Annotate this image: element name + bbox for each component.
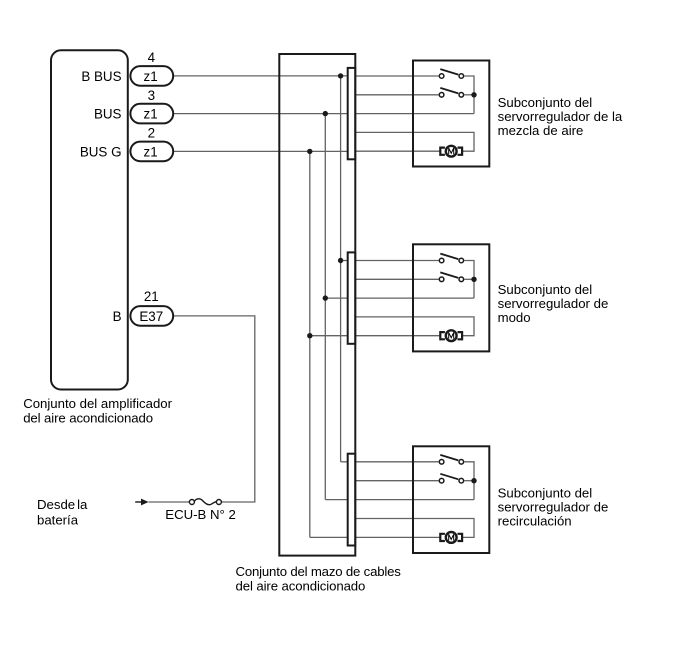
junction switch common in air mix servo	[471, 92, 476, 97]
motor M3 letter M	[449, 534, 454, 540]
wire harness to air mix servo terminal 5 (motor)	[350, 150, 440, 152]
wire harness to recirculation servo terminal 1	[350, 461, 439, 463]
wire BUS G branch to connector 2	[310, 335, 350, 337]
junction BUS G at connector 1	[307, 149, 312, 154]
switch S2b lever	[440, 272, 458, 278]
wire switch common vertical in mode servo	[464, 261, 474, 299]
svg-text:4: 4	[148, 50, 156, 65]
wire harness to air mix servo terminal 1	[350, 75, 439, 77]
switch S1b lever	[440, 88, 458, 94]
wire switch 2 output in mode servo	[464, 278, 474, 280]
wire BUS branch to connector 2	[325, 297, 349, 299]
switch S2a contact circles in mode servo	[439, 258, 444, 263]
junction BUS G at connector 2	[307, 333, 312, 338]
wire harness to recirculation servo terminal 3	[350, 499, 474, 501]
svg-text:3: 3	[148, 88, 155, 103]
wire harness to air mix servo terminal 2	[350, 94, 439, 96]
connector E37 pin 21 (B) oval	[130, 306, 173, 326]
wire BUS pin to harness connector 1	[152, 113, 350, 115]
svg-text:z1: z1	[144, 107, 158, 122]
wire BUS G pin to harness connector 1	[152, 150, 350, 152]
svg-text:Subconjunto del: Subconjunto del	[498, 486, 593, 501]
svg-text:Conjunto del amplificador: Conjunto del amplificador	[23, 396, 172, 411]
switch S3a contact circles in recirculation servo	[439, 460, 444, 465]
switch S2b contact circles in mode servo	[439, 277, 444, 282]
svg-text:z1: z1	[144, 145, 158, 160]
connector z1 pin 2 (BUS G) oval	[130, 142, 173, 162]
harness connector block 3	[348, 454, 356, 546]
svg-text:21: 21	[144, 289, 159, 304]
wire harness to recirculation servo terminal 2	[350, 480, 439, 482]
wire harness to air mix servo terminal 3	[350, 113, 474, 115]
wire harness to mode servo terminal 3	[350, 297, 474, 299]
wire B pin E37 to fuse (right/down/left)	[152, 316, 255, 502]
motor M2 terminal brackets	[440, 332, 445, 339]
connector z1 pin 3 (BUS) oval	[130, 104, 173, 124]
wire BUS branch to connector 3	[325, 499, 349, 501]
svg-text:E37: E37	[139, 309, 163, 324]
junction B BUS at connector 1	[338, 73, 343, 78]
wire switch common vertical in air mix servo	[464, 76, 474, 114]
switch S1a lever	[440, 69, 458, 75]
svg-text:ECU-B N° 2: ECU-B N° 2	[165, 507, 236, 522]
harness connector block 1	[348, 68, 356, 159]
wire B BUS vertical drop inside harness	[340, 76, 342, 462]
switch S1b contact circles in air mix servo	[439, 93, 444, 98]
switch S3a lever	[440, 455, 458, 461]
wire BUS G vertical drop inside harness	[309, 151, 311, 537]
wire harness to recirculation servo terminal 5 (motor)	[350, 536, 440, 538]
svg-text:z1: z1	[144, 69, 158, 84]
motor M2 letter M	[449, 333, 454, 339]
junction switch common in recirculation servo	[471, 478, 476, 483]
svg-text:servorregulador de: servorregulador de	[498, 296, 609, 311]
svg-text:2: 2	[148, 126, 155, 141]
svg-text:del aire acondicionado: del aire acondicionado	[236, 579, 366, 594]
svg-text:batería: batería	[37, 512, 79, 527]
arrow from battery	[135, 501, 141, 503]
wire harness to recirculation servo terminal 4 then down to motor	[350, 519, 474, 538]
A/C wire harness assembly outline	[279, 54, 355, 556]
wire harness to air mix servo terminal 4 then down to motor	[350, 132, 474, 151]
svg-text:Subconjunto del: Subconjunto del	[498, 282, 593, 297]
svg-text:B BUS: B BUS	[81, 69, 121, 84]
wire BUS G branch to connector 3	[310, 536, 350, 538]
switch S1a contact circles in air mix servo	[439, 74, 444, 79]
junction BUS at connector 2	[323, 295, 328, 300]
svg-text:mezcla de aire: mezcla de aire	[498, 123, 584, 138]
motor M1 terminal brackets	[440, 148, 445, 155]
wire switch 2 output in air mix servo	[464, 94, 474, 96]
switch S2a lever	[440, 254, 458, 260]
junction B BUS at connector 2	[338, 258, 343, 263]
wire switch 2 output in recirculation servo	[464, 480, 474, 482]
wire B BUS branch to connector 2	[341, 260, 350, 262]
switch S3b lever	[440, 474, 458, 480]
wire switch common vertical in recirculation servo	[464, 462, 474, 500]
motor M1 letter M	[449, 148, 454, 154]
svg-text:Conjunto del mazo de cables: Conjunto del mazo de cables	[236, 564, 402, 579]
svg-text:Subconjunto del: Subconjunto del	[498, 95, 593, 110]
wire arrow to fuse	[149, 501, 190, 503]
wire BUS vertical drop inside harness	[324, 114, 326, 500]
junction switch common in mode servo	[471, 277, 476, 282]
A/C amplifier assembly outline	[51, 50, 128, 389]
mode servo box outline	[413, 244, 489, 351]
svg-text:B: B	[113, 309, 122, 324]
switch S3b contact circles in recirculation servo	[439, 478, 444, 483]
svg-text:servorregulador de la: servorregulador de la	[498, 109, 623, 124]
recirculation servo box outline	[413, 446, 489, 553]
wire harness to mode servo terminal 1	[350, 260, 439, 262]
connector z1 pin 4 (B BUS) oval	[130, 66, 173, 86]
svg-text:recirculación: recirculación	[498, 514, 572, 529]
svg-text:del aire acondicionado: del aire acondicionado	[23, 411, 153, 426]
svg-text:BUS G: BUS G	[80, 145, 122, 160]
harness connector block 2	[348, 252, 356, 343]
svg-text:BUS: BUS	[94, 107, 122, 122]
motor M1 circle	[446, 146, 457, 157]
motor M3 terminal brackets	[440, 534, 445, 541]
junction BUS at connector 1	[323, 111, 328, 116]
svg-text:servorregulador de: servorregulador de	[498, 500, 609, 515]
wire B BUS pin to harness connector 1	[152, 75, 350, 77]
wire harness to mode servo terminal 2	[350, 278, 439, 280]
svg-text:modo: modo	[498, 310, 531, 325]
wire harness to mode servo terminal 4 then down to motor	[350, 317, 474, 336]
motor M3 circle	[446, 532, 457, 543]
wire B BUS branch to connector 3	[341, 461, 350, 463]
svg-text:Desdela: Desdela	[37, 497, 88, 512]
wire harness to mode servo terminal 5 (motor)	[350, 335, 440, 337]
fuse ECU-B No.2 symbol	[189, 500, 194, 505]
motor M2 circle	[446, 330, 457, 341]
air mix servo box outline	[413, 61, 489, 167]
